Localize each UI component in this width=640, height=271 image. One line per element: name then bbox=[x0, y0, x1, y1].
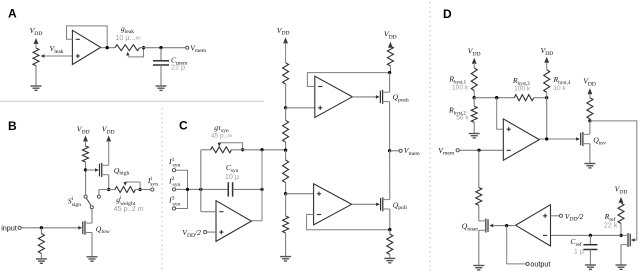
capacitor Cmem bbox=[153, 48, 188, 86]
terminal output bbox=[526, 260, 550, 269]
op-amp synapse integrator bbox=[216, 201, 251, 242]
node column tap lower bbox=[284, 192, 287, 195]
node after Rtau bbox=[232, 148, 263, 151]
resistor gweight bbox=[114, 187, 144, 213]
resistor Rhyst3 bbox=[512, 76, 534, 101]
transistor Qinv bbox=[576, 132, 606, 146]
node Csyn right junction bbox=[260, 188, 263, 191]
node B bias bbox=[84, 168, 87, 171]
svg-text:1 p: 1 p bbox=[574, 247, 584, 256]
node Rtau column tap bbox=[260, 148, 263, 151]
node after Rleak bbox=[140, 46, 161, 49]
wire integrator minus bbox=[201, 211, 216, 213]
transistor Qreset bbox=[462, 219, 493, 233]
wire pull output to gate bbox=[352, 203, 377, 205]
wire upper plus input bbox=[286, 107, 315, 109]
node Qinv drain bbox=[588, 119, 591, 122]
resistor divider R3 (column) bbox=[283, 150, 289, 194]
VDD supply (Rhyst1) bbox=[468, 47, 481, 69]
op-amp U1 (leak buffer) bbox=[72, 30, 100, 64]
VDD supply (Qpush) bbox=[384, 30, 397, 48]
wire Isyn1 to bus bbox=[176, 170, 188, 189]
panel label C bbox=[179, 118, 188, 132]
ground (panel A potentiometer) bbox=[31, 86, 42, 90]
node plus branch bbox=[495, 96, 498, 99]
terminal Isyn3 bbox=[168, 196, 181, 211]
wire bias node to switch bbox=[85, 170, 87, 195]
node reset output bbox=[505, 224, 508, 227]
wire Rtau row to column bbox=[262, 149, 286, 151]
wire weight row left stub bbox=[99, 190, 115, 195]
VDD supply (Qinv) bbox=[583, 77, 596, 98]
node Cref junction bbox=[589, 234, 592, 237]
ground (Cmem) bbox=[156, 86, 167, 90]
ground (Qreset) bbox=[473, 266, 484, 270]
panel label D bbox=[443, 7, 452, 21]
resistor Qinv load bbox=[587, 98, 593, 121]
node Qpull source junction bbox=[388, 228, 391, 231]
wire to Vmem (panel A) bbox=[161, 47, 186, 49]
wire plus branch down bbox=[497, 98, 504, 130]
wire Qinv drain bbox=[589, 121, 591, 134]
ground (Qpull) bbox=[384, 258, 395, 262]
wire Isyn3 to bus bbox=[176, 189, 188, 208]
node Cmem junction bbox=[159, 46, 162, 49]
svg-text:100 k: 100 k bbox=[514, 86, 531, 93]
wire Qlow source to ground bbox=[91, 233, 93, 257]
terminal Isyn2 bbox=[168, 176, 181, 191]
wire bias node to Qhigh gate bbox=[86, 169, 96, 171]
capacitor Csyn bbox=[225, 163, 262, 197]
wire push output to gate bbox=[352, 96, 376, 98]
terminal VDD/2 (panel C) bbox=[182, 228, 216, 239]
node U1 output bbox=[106, 46, 109, 49]
divider line A/B bbox=[0, 100, 264, 102]
transistor Qpull bbox=[376, 197, 407, 211]
terminal weight row left bbox=[97, 195, 100, 198]
node bus junction bbox=[186, 188, 189, 191]
panel label A bbox=[8, 7, 17, 21]
terminal Isyn (panel B) bbox=[147, 176, 158, 191]
transistor Qhigh bbox=[95, 163, 130, 177]
wire Qinv source to ground bbox=[589, 144, 591, 164]
Rtau wiper arrow bbox=[218, 143, 243, 150]
svg-text:56 k: 56 k bbox=[456, 114, 469, 121]
wire output feedback vertical bbox=[251, 150, 262, 221]
wire feedback node to output bbox=[546, 98, 548, 139]
terminal Vmem (panel A) bbox=[186, 43, 207, 54]
node Vleak wiper arrow bbox=[41, 44, 73, 58]
ground (column) bbox=[280, 257, 291, 261]
node output feedback junction bbox=[545, 137, 548, 140]
VDD supply (Rhyst4) bbox=[541, 46, 554, 70]
svg-text:45 p..2 m: 45 p..2 m bbox=[114, 204, 144, 213]
terminal Isyn1 bbox=[168, 157, 181, 172]
svg-text:input: input bbox=[1, 223, 17, 232]
node feedback junction bbox=[199, 188, 202, 191]
panel label B bbox=[8, 119, 17, 133]
ground (Rhyst2) bbox=[469, 134, 480, 138]
VDD supply (column) bbox=[277, 26, 290, 63]
ground (Qinv) bbox=[584, 164, 595, 168]
wire U1 feedback loop bbox=[67, 26, 108, 48]
wire Vmem to minus input bbox=[460, 149, 504, 151]
terminal Vmem (panel C) bbox=[399, 146, 420, 157]
transistor Qpush bbox=[376, 90, 409, 104]
switch Ssign bbox=[68, 195, 94, 209]
wire inverter to Qref gate bbox=[590, 121, 637, 240]
resistor input pulldown bbox=[38, 228, 44, 259]
terminal Vmem (panel D) bbox=[438, 146, 459, 157]
wire pull minus feedback bbox=[307, 215, 390, 230]
svg-text:D: D bbox=[443, 7, 452, 21]
node column tap upper bbox=[284, 106, 287, 109]
wire Qpush drain to Vmem bbox=[389, 102, 391, 151]
wire Qlow drain to switch bbox=[91, 209, 93, 223]
wire reset output bbox=[492, 225, 516, 227]
node Rref bottom bbox=[619, 234, 622, 237]
resistor Rtau syn bbox=[201, 123, 233, 153]
wire Qref source to ground bbox=[620, 245, 622, 265]
ground (Qref) bbox=[616, 265, 627, 269]
node Vmem reset junction bbox=[477, 149, 480, 152]
node Vmem (panel C) bbox=[388, 149, 399, 152]
node column mid bbox=[284, 149, 287, 152]
op-amp push comparator bbox=[315, 76, 353, 117]
terminal VDD/2 (panel D) bbox=[551, 212, 584, 223]
resistor Rhyst1 bbox=[448, 68, 477, 98]
VDD supply (Rref) bbox=[615, 185, 628, 204]
resistor Qpush source bbox=[387, 46, 393, 73]
resistor Rref bbox=[604, 203, 624, 235]
wire hyst node to Rhyst3 bbox=[474, 97, 514, 99]
node hysteresis feedback bbox=[545, 96, 548, 99]
VDD supply (B left) bbox=[77, 125, 90, 147]
resistor Rhyst2 bbox=[448, 98, 477, 134]
gweight wiper arrow bbox=[123, 182, 140, 190]
node input resistor junction bbox=[40, 226, 43, 229]
resistor divider R4 (column) bbox=[283, 194, 289, 257]
resistor Rhyst4 bbox=[544, 70, 571, 98]
svg-text:10 μ: 10 μ bbox=[225, 172, 239, 181]
wire Qpush source bbox=[389, 73, 391, 93]
wire feedback vertical bbox=[200, 150, 202, 212]
wire Rhyst3 to node bbox=[534, 97, 547, 99]
wire push minus feedback bbox=[307, 73, 389, 87]
svg-text:10 μ...∞: 10 μ...∞ bbox=[115, 33, 140, 42]
wire lower plus input bbox=[286, 193, 314, 195]
op-amp reset comparator bbox=[516, 205, 551, 246]
node after gweight bbox=[136, 188, 151, 191]
svg-text:B: B bbox=[8, 119, 17, 133]
transistor Qlow bbox=[78, 221, 110, 235]
resistor Qpull source bbox=[387, 230, 393, 259]
node hyst divider bbox=[473, 96, 476, 99]
wire Qreset source to ground bbox=[478, 230, 480, 265]
wire to output terminal bbox=[507, 226, 526, 264]
transistor Qref bbox=[621, 233, 635, 247]
wire Isyn2 line bbox=[176, 188, 228, 190]
capacitor Cref bbox=[570, 235, 597, 265]
divider dashed B/C bbox=[161, 108, 163, 271]
potentiometer R leak-bias bbox=[33, 48, 39, 86]
divider dashed C/D bbox=[429, 2, 431, 271]
wire comparator output bbox=[539, 138, 578, 140]
wire Qpull source bbox=[389, 209, 391, 230]
resistor divider R2 (column) bbox=[283, 108, 289, 150]
resistor divider R1 (column) bbox=[283, 63, 289, 108]
VDD supply (B right) bbox=[102, 125, 115, 166]
wire Vmem to Qpull drain bbox=[389, 151, 391, 200]
resistor Qreset drain bbox=[476, 150, 482, 221]
wire input to Qlow gate bbox=[22, 227, 79, 229]
Rleak wiper arrow bbox=[126, 48, 144, 57]
terminal input bbox=[1, 223, 21, 232]
node Qpush source junction bbox=[388, 71, 391, 74]
node Qhigh drain junction bbox=[107, 188, 110, 191]
op-amp hysteretic comparator bbox=[503, 119, 539, 160]
svg-text:45 p..∞: 45 p..∞ bbox=[211, 132, 232, 139]
ground (Qlow) bbox=[87, 257, 98, 261]
op-amp pull comparator bbox=[314, 184, 352, 225]
wire minus line D2 bbox=[551, 234, 622, 236]
svg-text:10 k: 10 k bbox=[553, 85, 566, 92]
resistor B bias bbox=[83, 146, 89, 170]
svg-text:22 p: 22 p bbox=[171, 63, 185, 72]
VDD supply (panel A) bbox=[30, 26, 43, 48]
svg-text:100 k: 100 k bbox=[452, 84, 469, 91]
svg-text:output: output bbox=[530, 260, 550, 269]
wire Qhigh drain bbox=[108, 175, 110, 190]
wire U1 output bbox=[101, 47, 115, 49]
resistor Rleak bbox=[115, 24, 141, 51]
ground (input resistor) bbox=[36, 259, 47, 263]
svg-text:C: C bbox=[179, 118, 188, 132]
ground (Cref) bbox=[585, 265, 596, 269]
svg-text:22 k: 22 k bbox=[604, 221, 618, 230]
svg-text:A: A bbox=[8, 7, 17, 21]
